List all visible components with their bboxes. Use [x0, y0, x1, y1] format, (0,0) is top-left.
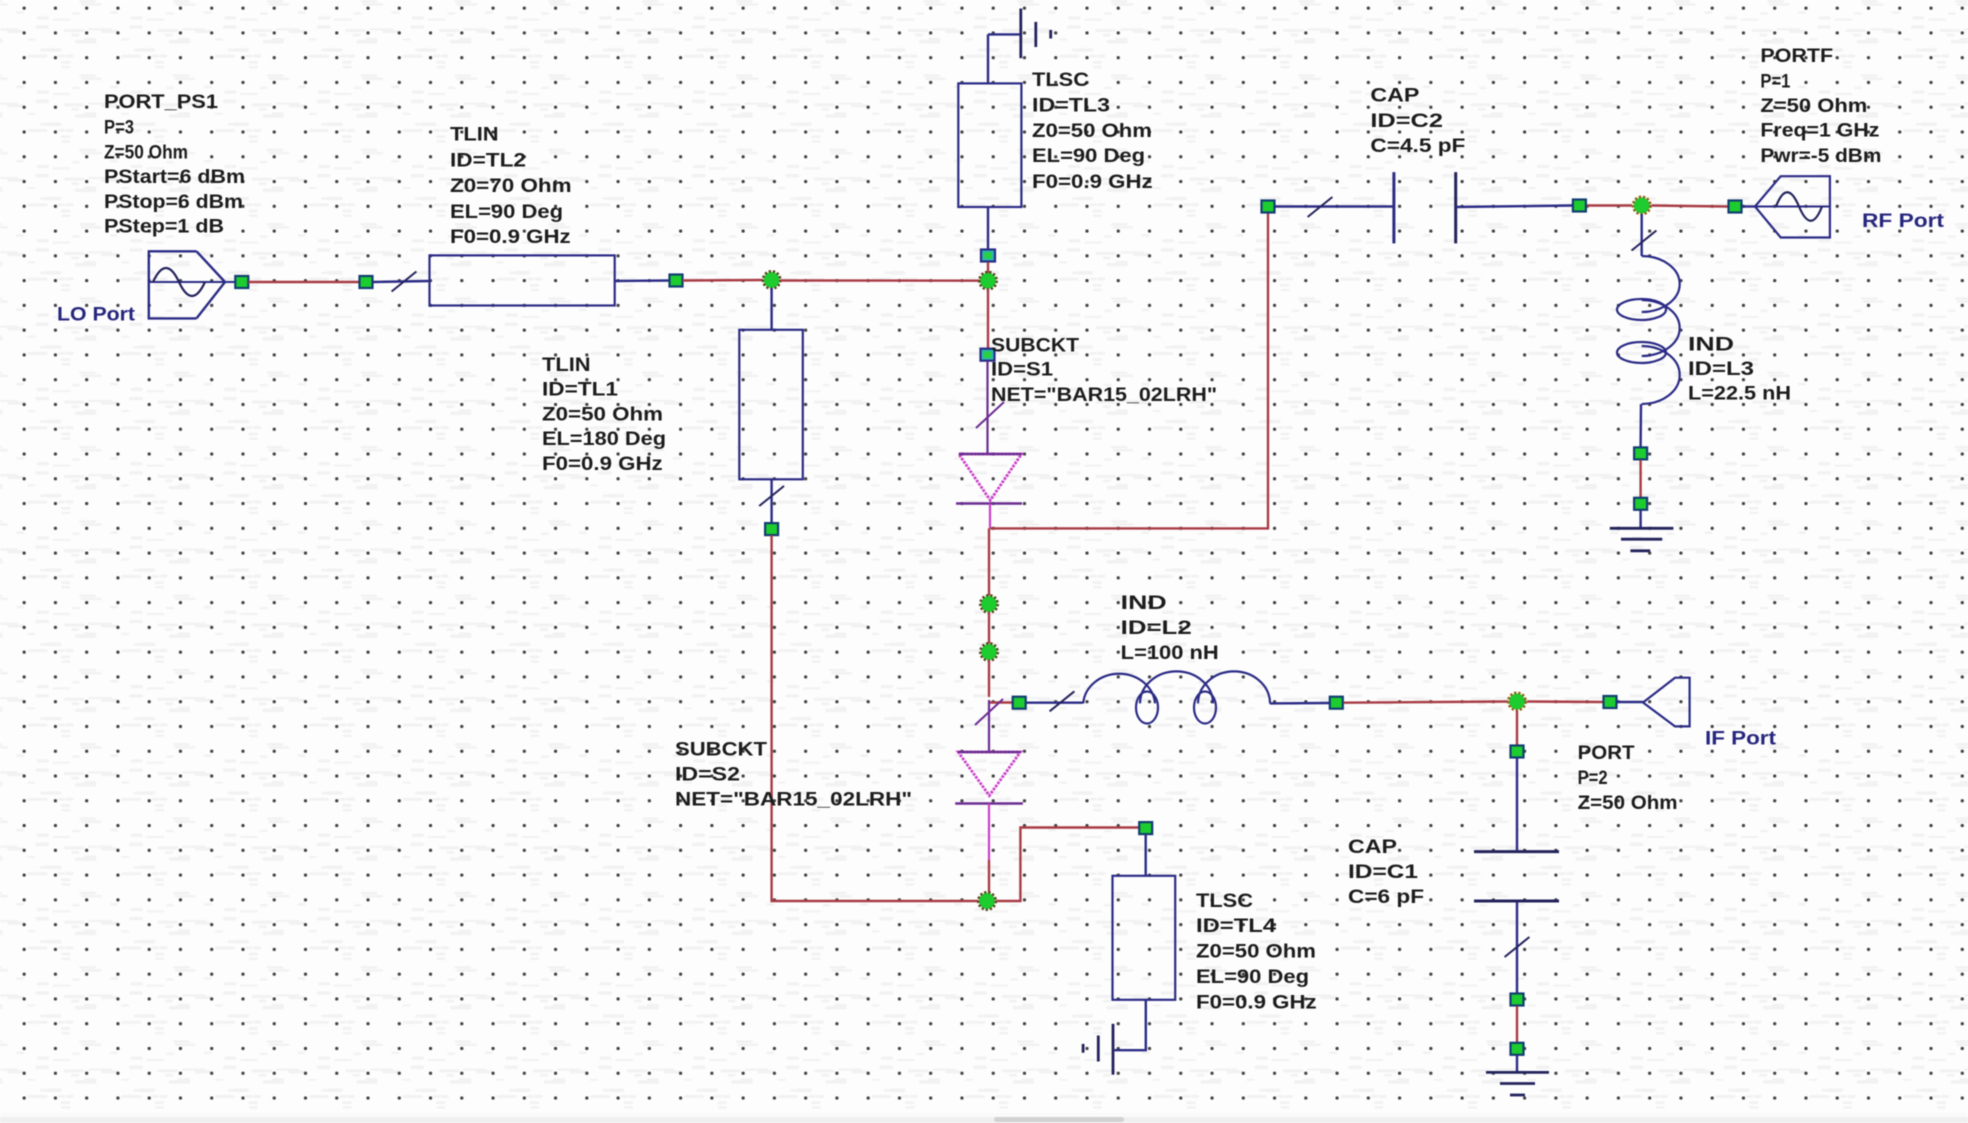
wire tap to L2 left node (red): [988, 701, 1012, 703]
svg-text:EL=180 Deg: EL=180 Deg: [542, 429, 666, 450]
node square below C1: [1511, 994, 1524, 1006]
teal node square at S1 pin 1: [981, 349, 995, 361]
label PORTF parameters: [1760, 46, 1881, 167]
junction node D (bottom): [978, 892, 995, 909]
svg-text:SUBCKT: SUBCKT: [991, 335, 1079, 356]
wire node A to node B (red): [780, 279, 982, 282]
wire to C2 with pin marker: [1275, 197, 1394, 217]
wire L3 down to node square: [1639, 404, 1642, 447]
wire node B down to SUBCKT S1 (red): [987, 289, 989, 349]
svg-text:ID=S1: ID=S1: [991, 359, 1053, 380]
label TLIN TL2 parameters: [450, 125, 572, 248]
label IND L2: [1121, 593, 1219, 664]
wire node F down to IND L3 with pin marker: [1632, 214, 1657, 256]
node square above L3 ground: [1634, 498, 1647, 510]
node square below L3: [1634, 447, 1647, 459]
svg-text:ID=TL4: ID=TL4: [1196, 916, 1277, 937]
ground below C1: [1486, 1055, 1549, 1095]
diode S2 (BAR15_02LRH): [955, 752, 1023, 804]
svg-text:ID=C2: ID=C2: [1370, 111, 1443, 132]
wire TL3 down to teal node: [987, 208, 989, 250]
wire L2 to right node: [1270, 702, 1329, 705]
svg-text:L=22.5 nH: L=22.5 nH: [1688, 384, 1791, 405]
svg-text:Z0=50 Ohm: Z0=50 Ohm: [542, 404, 663, 425]
svg-text:C=6 pF: C=6 pF: [1348, 887, 1424, 908]
svg-text:Freq=1 GHz: Freq=1 GHz: [1760, 121, 1879, 142]
label RF Port: [1862, 211, 1945, 232]
node square below TL1: [765, 523, 778, 535]
node square at LO port pin: [235, 276, 248, 288]
scrollbar thumb: [994, 1117, 1124, 1122]
shorted stub TLSC TL4: [1113, 876, 1176, 1000]
junction node A (top of TL1): [763, 271, 780, 288]
label LO Port: [57, 304, 136, 325]
wire between L3 ground nodes (red): [1639, 460, 1641, 497]
wire S2 cathode down to node D: [988, 804, 990, 893]
svg-text:L=100 nH: L=100 nH: [1121, 643, 1219, 664]
svg-text:PStop=6 dBm: PStop=6 dBm: [104, 192, 243, 213]
svg-text:ID=TL2: ID=TL2: [450, 150, 526, 171]
wire TL2 pin 2 out: [615, 279, 670, 282]
node square left of CAP C2: [1262, 201, 1275, 213]
label SUBCKT S2: [675, 740, 912, 811]
transmission line TLIN TL1: [739, 330, 803, 480]
shorted stub TLSC TL3: [958, 83, 1021, 207]
node square at RF port: [1729, 201, 1742, 213]
port 2 IF Port arrow symbol: [1617, 678, 1690, 727]
scrollbar track at bottom: [0, 1113, 1968, 1123]
junction node C1 on center column: [980, 595, 997, 612]
svg-text:PStep=1 dB: PStep=1 dB: [104, 217, 224, 238]
node square right of L2: [1330, 697, 1343, 709]
svg-text:Z=50 Ohm: Z=50 Ohm: [1760, 96, 1867, 117]
label IF Port: [1705, 729, 1777, 750]
transmission line TLIN TL2: [430, 255, 615, 305]
svg-text:EL=90 Deg: EL=90 Deg: [450, 202, 563, 223]
wire TL2 to node A (red): [683, 279, 764, 282]
junction node F (RF tee): [1633, 197, 1650, 214]
svg-text:P=3: P=3: [104, 118, 134, 139]
svg-text:CAP: CAP: [1370, 86, 1419, 107]
wire LO port to TL2 (red segment): [248, 281, 359, 283]
svg-text:ID=L2: ID=L2: [1121, 618, 1192, 639]
svg-text:F0=0.9 GHz: F0=0.9 GHz: [1196, 993, 1317, 1014]
svg-text:P=2: P=2: [1578, 768, 1608, 789]
wire node E to IF port (red): [1527, 700, 1603, 703]
svg-text:NET="BAR15_02LRH": NET="BAR15_02LRH": [675, 790, 912, 811]
wire between ground nodes (red): [1516, 1006, 1518, 1042]
svg-text:EL=90 Deg: EL=90 Deg: [1196, 967, 1309, 988]
diode S1 (BAR15_02LRH): [956, 454, 1022, 504]
label PORT_PS1 parameters: [104, 92, 245, 238]
svg-text:ID=TL3: ID=TL3: [1032, 96, 1110, 117]
junction node E (IF tee): [1508, 693, 1525, 710]
ground at top of TLSC TL3: [988, 9, 1051, 84]
svg-text:F0=0.9 GHz: F0=0.9 GHz: [450, 227, 571, 248]
ground below L3: [1610, 510, 1674, 551]
svg-text:ID=C1: ID=C1: [1348, 862, 1419, 883]
wire PORT 2 node down to CAP C1: [1516, 758, 1518, 850]
wire TL1 pin 2 down with pin marker: [759, 479, 784, 522]
teal node square below TL3: [981, 250, 995, 262]
wire node F to RF port (red): [1652, 206, 1728, 207]
wire between center junctions (red): [988, 613, 990, 644]
label CAP C1: [1348, 837, 1424, 908]
svg-text:TLSC: TLSC: [1032, 70, 1089, 91]
ground at bottom of TL4 (left-pointing): [1083, 1000, 1146, 1075]
SUBCKT S1 pin wire with pin marker (purple): [976, 361, 1004, 453]
wire junction to IND L2 tap (red): [988, 661, 990, 698]
svg-text:IND: IND: [1688, 335, 1734, 356]
svg-text:TLIN: TLIN: [450, 125, 499, 146]
svg-text:P=1: P=1: [1760, 72, 1790, 93]
wire node A down to TLIN TL1: [770, 288, 772, 330]
svg-text:NET="BAR15_02LRH": NET="BAR15_02LRH": [991, 385, 1217, 406]
svg-text:F0=0.9 GHz: F0=0.9 GHz: [542, 454, 663, 475]
capacitor C2: [1394, 172, 1456, 243]
svg-text:TLSC: TLSC: [1196, 891, 1253, 912]
inductor IND L3 coil (vertical): [1617, 256, 1680, 404]
wire node E down to PORT 2 node (red): [1516, 711, 1518, 746]
wire C2 node to junction node F (red): [1587, 204, 1632, 206]
wire L2 to junction node E (red): [1344, 702, 1508, 703]
label SUBCKT S1: [991, 335, 1217, 405]
wire S1 cathode down (magenta): [989, 504, 991, 529]
wire S1 to junction nodes (red): [988, 528, 990, 595]
junction node C2 on center column: [980, 643, 997, 660]
wire TL1 down and right to node D (red): [772, 535, 979, 901]
svg-text:Z0=50 Ohm: Z0=50 Ohm: [1032, 121, 1152, 142]
label TLIN TL1 parameters: [542, 355, 666, 475]
svg-text:PORT: PORT: [1578, 743, 1635, 764]
label TLSC TL3 parameters: [1032, 70, 1153, 193]
svg-text:IND: IND: [1121, 593, 1167, 614]
node square left of TL2: [360, 276, 373, 288]
svg-text:Z=50 Ohm: Z=50 Ohm: [1578, 793, 1678, 814]
svg-text:Z0=70 Ohm: Z0=70 Ohm: [450, 176, 572, 197]
node square above ground: [1511, 1043, 1524, 1055]
svg-text:F0=0.9 GHz: F0=0.9 GHz: [1032, 172, 1153, 193]
node square at TL4 pin: [1139, 822, 1152, 834]
svg-text:TLIN: TLIN: [542, 355, 591, 376]
node square at IF port: [1604, 696, 1617, 708]
wire to L2 with pin marker: [1027, 691, 1084, 711]
wire node to TL4: [1144, 835, 1146, 876]
node square left of IND L2: [1013, 697, 1026, 709]
label CAP C2: [1370, 86, 1465, 157]
node square right of TL2: [670, 275, 683, 287]
junction node B (center): [979, 272, 996, 289]
svg-text:C=4.5 pF: C=4.5 pF: [1370, 136, 1465, 157]
SUBCKT S2 pin wire with pin marker (purple): [975, 699, 1003, 752]
svg-text:PORTF: PORTF: [1760, 46, 1833, 67]
svg-text:CAP: CAP: [1348, 837, 1397, 858]
svg-text:EL=90 Deg: EL=90 Deg: [1032, 146, 1145, 167]
label IND L3: [1688, 335, 1791, 405]
svg-text:SUBCKT: SUBCKT: [675, 740, 767, 761]
svg-text:RF Port: RF Port: [1862, 211, 1945, 232]
node square of PORT 2: [1511, 746, 1524, 758]
wire into TLIN TL2 pin 1 with pin marker: [373, 272, 430, 292]
label PORT P=2: [1578, 743, 1678, 814]
port PORT_PS1 (LO Port) symbol: [149, 251, 235, 318]
svg-text:ID=S2: ID=S2: [675, 765, 740, 786]
capacitor C1 (vertical): [1474, 852, 1559, 901]
svg-text:Z=50 Ohm: Z=50 Ohm: [104, 142, 188, 163]
wire node D right and up to TLSC TL4 (red): [996, 828, 1139, 902]
node square right of C2: [1573, 200, 1586, 212]
svg-text:ID=L3: ID=L3: [1688, 359, 1754, 380]
svg-text:Z0=50 Ohm: Z0=50 Ohm: [1196, 942, 1316, 963]
port PORTF (RF Port) symbol: [1743, 176, 1830, 237]
label TLSC TL4 parameters: [1196, 891, 1317, 1014]
wire C2 feedback: from C2 node down and left to S1 output (red): [990, 213, 1268, 529]
svg-text:PStart=6 dBm: PStart=6 dBm: [104, 167, 245, 188]
wire teal node to junction node B: [987, 262, 989, 273]
svg-text:IF Port: IF Port: [1705, 729, 1777, 750]
wire C1 down with pin marker: [1505, 903, 1530, 993]
svg-text:ID=TL1: ID=TL1: [542, 380, 619, 401]
inductor IND L2 coil: [1083, 671, 1270, 723]
svg-text:PORT_PS1: PORT_PS1: [104, 92, 218, 113]
wire C2 to node square: [1456, 206, 1572, 208]
svg-text:Pwr=-5 dBm: Pwr=-5 dBm: [1760, 146, 1881, 167]
svg-text:LO Port: LO Port: [57, 304, 136, 325]
